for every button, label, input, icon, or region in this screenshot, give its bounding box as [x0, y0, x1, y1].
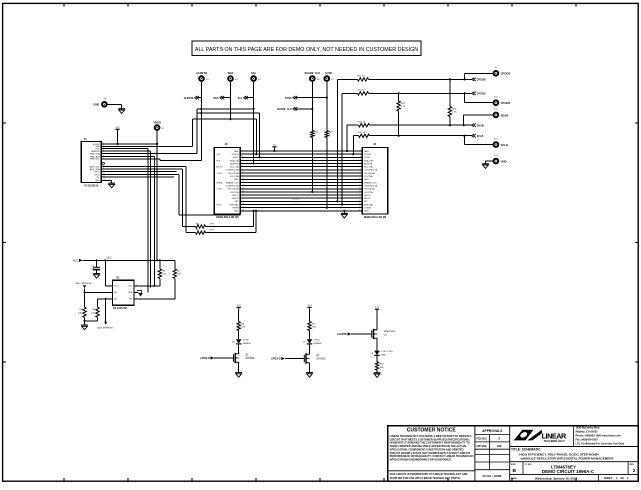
resistor R16: [359, 124, 370, 127]
wire pin10: [101, 171, 176, 173]
wire CPGD-D line: [342, 92, 357, 94]
wire bus 17 WP: [240, 200, 362, 202]
svg-text:OPT: OPT: [210, 223, 215, 225]
wire: [486, 160, 493, 162]
svg-text:VTRIM: VTRIM: [232, 207, 239, 209]
wire bus 13 PGOOD1A: [240, 188, 362, 190]
svg-text:APP ENG.: APP ENG.: [476, 445, 487, 448]
wire bus 9 VOUT0A: [240, 175, 362, 177]
wire bus 20 GND: [240, 210, 362, 212]
svg-text:8: 8: [360, 172, 361, 174]
svg-text:ONLY: ONLY: [293, 202, 299, 204]
svg-text:AUX_EEPROM: AUX_EEPROM: [97, 327, 112, 330]
svg-text:R12 10: R12 10: [358, 76, 366, 78]
svg-text:CONTROL1A: CONTROL1A: [364, 184, 378, 187]
net flag CPGDB: [472, 78, 476, 81]
LED D3: [374, 351, 380, 356]
svg-text:6: 6: [360, 165, 361, 167]
svg-text:WP: WP: [235, 201, 239, 203]
svg-text:IC NO.: IC NO.: [525, 464, 532, 466]
wire pin4 to EEPROM: [101, 150, 151, 152]
svg-text:9: 9: [242, 175, 243, 177]
svg-text:SDA: SDA: [228, 71, 234, 75]
resistor R15 pull: [398, 93, 400, 101]
svg-text:Milpitas, CA 95035: Milpitas, CA 95035: [576, 431, 598, 434]
resistor R2: [174, 260, 176, 269]
svg-text:VTRIM: VTRIM: [364, 207, 371, 209]
svg-text:VOUT0A: VOUT0A: [230, 175, 239, 178]
svg-text:ALERTB: ALERTB: [337, 333, 347, 336]
wire: [108, 103, 122, 105]
svg-text:5: 5: [242, 162, 243, 164]
svg-text:8: 8: [242, 172, 243, 174]
wire gate: [351, 333, 372, 335]
wire: [255, 119, 257, 154]
resistor R12: [358, 78, 369, 81]
svg-text:CONTROL0A: CONTROL0A: [226, 169, 240, 172]
svg-text:J2: J2: [225, 142, 228, 146]
wire: [376, 340, 378, 351]
ground: [93, 274, 100, 279]
svg-text:20: 20: [242, 209, 244, 211]
wire bus 2 VDD33: [240, 153, 362, 155]
svg-text:Phone: (408)432-1900 www.line: Phone: (408)432-1900 www.linear.com: [576, 435, 622, 438]
wire bus 18 SPECIAL: [240, 203, 362, 205]
svg-text:R13 10: R13 10: [358, 90, 366, 92]
svg-text:5: 5: [360, 162, 361, 164]
wire: [238, 331, 240, 340]
svg-text:12: 12: [242, 184, 244, 186]
svg-text:GPIO2: GPIO2: [232, 198, 239, 200]
svg-text:CPGD-D: CPGD-D: [271, 358, 281, 361]
svg-text:DATE:: DATE:: [511, 477, 518, 480]
svg-text:3: 3: [242, 156, 243, 158]
svg-text:GND: GND: [93, 103, 99, 107]
svg-text:SCL_OA: SCL_OA: [364, 166, 373, 169]
resistor R7 OPT: [186, 232, 195, 234]
svg-text:VOUT0A: VOUT0A: [364, 175, 373, 178]
svg-text:CTRL1: CTRL1: [216, 189, 222, 191]
svg-text:SYNC: SYNC: [325, 71, 332, 75]
ground: [306, 373, 313, 378]
wire pin11 to J2 bottom: [101, 174, 179, 176]
svg-text:GPIO2: GPIO2: [364, 198, 371, 200]
svg-text:SPECIAL: SPECIAL: [364, 203, 374, 206]
net flag SCL: [244, 96, 248, 99]
resistor R5: [97, 299, 99, 307]
svg-text:SYNC: SYNC: [364, 157, 370, 159]
resistor R9: [308, 322, 311, 331]
svg-text:13: 13: [359, 187, 361, 189]
wire: [309, 331, 311, 340]
svg-text:MMBT3906: MMBT3906: [384, 331, 396, 333]
turret E6 KGND: [101, 101, 108, 108]
svg-text:GPIO1: GPIO1: [232, 195, 239, 197]
LED D2: [307, 339, 313, 344]
svg-text:6: 6: [242, 165, 243, 167]
svg-text:OF: OF: [621, 477, 625, 480]
svg-text:SCLB: SCLB: [477, 135, 484, 138]
wire: [346, 125, 348, 151]
svg-text:CTRL0: CTRL0: [216, 173, 222, 175]
wire: [376, 355, 378, 362]
resistor R4: [84, 292, 86, 307]
svg-text:SYNC: SYNC: [233, 157, 239, 159]
wire bus 7 CONTROL0A: [240, 169, 362, 171]
node A cross-route: [197, 108, 254, 110]
svg-text:19: 19: [359, 206, 361, 208]
svg-text:18: 18: [242, 203, 244, 205]
ground: [108, 183, 115, 188]
svg-text:16: 16: [242, 197, 244, 199]
wire: [341, 93, 343, 204]
net flag CPGDD: [472, 92, 476, 95]
wire: [376, 370, 378, 373]
svg-text:J1: J1: [84, 137, 87, 141]
svg-text:CPG0: CPG0: [243, 340, 250, 342]
svg-text:VCC: VCC: [107, 258, 112, 260]
ground: [81, 325, 88, 330]
svg-text:GREEN: GREEN: [243, 343, 251, 345]
svg-text:TO DC1613A: TO DC1613A: [84, 185, 98, 188]
svg-text:VCC: VCC: [114, 286, 119, 288]
wire pin9 OPT loop: [101, 168, 182, 170]
svg-text:SHEET: SHEET: [604, 477, 613, 480]
svg-text:PMB_SCL: PMB_SCL: [90, 159, 101, 161]
svg-text:19: 19: [242, 206, 244, 208]
turret E12 SCLB: [493, 141, 500, 148]
svg-text:SHARE_CLK: SHARE_CLK: [277, 108, 292, 111]
svg-text:CUSTOMER NOTICE: CUSTOMER NOTICE: [407, 427, 456, 433]
svg-text:CPGDD: CPGDD: [501, 101, 511, 105]
svg-text:CONTROL1A: CONTROL1A: [226, 184, 240, 187]
svg-text:10K: 10K: [312, 327, 316, 329]
svg-text:2: 2: [360, 153, 361, 155]
svg-text:GND: GND: [501, 160, 507, 164]
net flag CPGD-D: [281, 357, 285, 360]
net flag SHARE_CLK: [293, 107, 297, 110]
svg-text:GREEN: GREEN: [314, 343, 322, 345]
pin key circle: [102, 162, 104, 164]
net flag ALERTB gate: [348, 332, 352, 335]
svg-text:17: 17: [359, 200, 361, 202]
svg-text:REV.: REV.: [630, 464, 635, 466]
wire bus 10 GND: [240, 178, 362, 180]
svg-text:12: 12: [359, 184, 361, 186]
svg-text:9: 9: [360, 175, 361, 177]
svg-text:THIS CIRCUIT IS PROPRIETARY TO: THIS CIRCUIT IS PROPRIETARY TO LINEAR TE…: [390, 472, 468, 476]
wire CPGD-B line: [337, 78, 357, 80]
svg-text:7: 7: [242, 169, 243, 171]
svg-text:GND: GND: [364, 151, 369, 153]
wire: [252, 211, 254, 227]
title block: [388, 426, 639, 482]
turret E8 SHARE_CLK: [309, 75, 316, 82]
svg-text:DEMO MALE BD (M): DEMO MALE BD (M): [216, 216, 239, 219]
power flag on bus: [274, 147, 276, 151]
wire bus 14 VOUT1A: [240, 191, 362, 193]
svg-text:PMB_SDA: PMB_SDA: [90, 152, 101, 155]
wire gate: [214, 357, 233, 359]
svg-text:14: 14: [359, 191, 361, 193]
svg-text:16: 16: [359, 197, 361, 199]
net flag SCLB: [472, 134, 476, 137]
LT logo: [514, 430, 542, 441]
svg-text:CPGDB: CPGDB: [501, 72, 511, 76]
net flag ALERTB: [195, 96, 199, 99]
turret E4 SDA: [227, 75, 234, 82]
svg-text:PGOOD0A: PGOOD0A: [228, 172, 239, 175]
svg-text:AUX_SDA: AUX_SDA: [90, 168, 100, 171]
demo-only notice banner: [192, 41, 421, 56]
svg-text:SDA_OA: SDA_OA: [230, 159, 239, 162]
wire: [376, 312, 378, 328]
svg-text:1: 1: [360, 150, 361, 152]
resistor R21: [325, 131, 328, 138]
resistor R20: [311, 131, 314, 138]
svg-text:10K: 10K: [91, 313, 95, 315]
net flag AUX_EEPROM2: [105, 299, 107, 322]
svg-text:CPGDD: CPGDD: [477, 93, 486, 96]
wire: [336, 79, 338, 201]
svg-text:R16 10: R16 10: [358, 121, 366, 123]
svg-text:18: 18: [359, 203, 361, 205]
wire: [238, 344, 240, 353]
wire bus 19 VTRIM: [240, 207, 362, 209]
wire source: [238, 364, 240, 373]
wire SHARE_CLK down: [311, 82, 313, 131]
wire: [259, 113, 261, 157]
svg-text:WP: WP: [364, 201, 368, 203]
svg-text:10: 10: [359, 178, 361, 180]
svg-text:VCC: VCC: [73, 260, 78, 263]
wire SCL down: [253, 82, 255, 165]
svg-text:VOUT1A: VOUT1A: [230, 191, 239, 194]
power flag 3V3: [117, 129, 119, 144]
svg-text:CPGD-B: CPGD-B: [200, 357, 210, 360]
wire: [238, 311, 240, 322]
tag on WP pin: [137, 291, 142, 295]
ground: [482, 164, 489, 169]
wire pin5 ALERTB net: [101, 152, 197, 154]
wire: [191, 119, 193, 146]
svg-text:2N7002L: 2N7002L: [316, 358, 326, 360]
svg-text:13: 13: [242, 187, 244, 189]
svg-text:SCL_OA: SCL_OA: [230, 166, 239, 169]
power flag Q2: [307, 305, 312, 310]
svg-text:VDD33: VDD33: [364, 154, 372, 156]
wire: [352, 136, 354, 155]
svg-text:SHARE_CLK: SHARE_CLK: [226, 181, 239, 184]
svg-text:DEMO MALE BD (M): DEMO MALE BD (M): [364, 216, 387, 219]
svg-text:7: 7: [360, 169, 361, 171]
svg-text:SDAB: SDAB: [501, 113, 509, 117]
wire: [196, 113, 198, 153]
svg-text:DC1996: DC1996: [292, 196, 301, 198]
svg-text:2: 2: [633, 468, 636, 474]
svg-text:10K: 10K: [241, 327, 245, 329]
connector J1: [81, 142, 101, 183]
svg-text:2: 2: [242, 153, 243, 155]
ground: [118, 109, 125, 114]
svg-text:SUPPLIED FOR USE WITH LINEAR T: SUPPLIED FOR USE WITH LINEAR TECHNOLOGY …: [390, 476, 461, 480]
wire: [196, 109, 198, 113]
wire SDAB line: [347, 124, 358, 126]
svg-text:10: 10: [242, 178, 244, 180]
svg-text:JWL: JWL: [497, 445, 503, 448]
svg-text:CPGDB: CPGDB: [477, 79, 486, 82]
wire pin2 SDA net: [101, 145, 192, 147]
capacitor C2: [96, 260, 98, 267]
LED D1: [236, 339, 242, 344]
net flag SDA: [220, 96, 224, 99]
wire SYNC down: [326, 82, 328, 131]
wire ALERTB down: [200, 82, 202, 161]
wire to turret E9: [464, 73, 466, 79]
svg-text:4: 4: [360, 159, 361, 161]
svg-text:AUX_SCL: AUX_SCL: [90, 165, 100, 168]
wire bus 16 GPIO2: [240, 197, 362, 199]
wire bus 4 SDA_OA: [240, 159, 362, 161]
wire: [255, 211, 257, 233]
svg-text:Wednesday, January 16, 2013: Wednesday, January 16, 2013: [535, 477, 577, 481]
svg-text:GND: GND: [234, 179, 239, 181]
svg-text:1: 1: [242, 150, 243, 152]
turret E10 CPGDD: [493, 99, 500, 106]
svg-text:Fax: (408)434-0507: Fax: (408)434-0507: [576, 439, 599, 442]
svg-text:SCALE = NONE: SCALE = NONE: [483, 474, 502, 478]
svg-text:DEMO CIRCUIT 1996A-C: DEMO CIRCUIT 1996A-C: [542, 469, 595, 474]
svg-text:GND: GND: [234, 151, 239, 153]
turret E11 SDAB: [493, 112, 500, 119]
wire bus 3 SYNC: [240, 156, 362, 158]
resistor R8: [237, 322, 240, 331]
wire pin13 GND: [101, 179, 112, 181]
wire gate: [285, 358, 304, 360]
svg-text:10K: 10K: [177, 274, 181, 276]
resistor R10: [375, 362, 378, 370]
resistor R6 OPT: [183, 226, 196, 228]
svg-text:SHARE_CLK: SHARE_CLK: [305, 71, 321, 75]
svg-text:SPECIAL: SPECIAL: [230, 203, 240, 206]
svg-text:SCLB: SCLB: [501, 143, 508, 147]
svg-text:10K: 10K: [380, 367, 384, 369]
wire pin7 SCL net: [101, 158, 160, 160]
wire VDD33 pin1: [101, 143, 157, 145]
svg-text:R17 10: R17 10: [358, 132, 366, 134]
svg-text:RED: RED: [381, 354, 386, 356]
svg-text:PGOOD1A: PGOOD1A: [364, 188, 375, 191]
node B cross-route: [197, 112, 260, 114]
svg-text:3: 3: [136, 298, 137, 300]
svg-text:LTST-C190: LTST-C190: [381, 351, 393, 353]
svg-text:ALERTB: ALERTB: [364, 162, 373, 165]
svg-text:SIZE: SIZE: [511, 464, 516, 466]
svg-text:OPT1: OPT1: [94, 172, 100, 174]
wire pin8 OPT loop: [101, 165, 186, 167]
svg-text:20: 20: [359, 209, 361, 211]
svg-text:TECHNOLOGY: TECHNOLOGY: [543, 439, 565, 443]
wire bus 11 SHARE_CLK: [240, 181, 362, 183]
net flag CPGD-B: [211, 356, 215, 359]
wire VDD33 drop: [156, 144, 158, 260]
svg-text:VDD33: VDD33: [232, 154, 240, 156]
wire bus 6 SCL_OA: [240, 166, 362, 168]
svg-text:ALERTB: ALERTB: [184, 97, 194, 100]
wire to turret E12: [463, 136, 465, 145]
net flag SDAB: [472, 124, 476, 127]
svg-text:4: 4: [242, 159, 243, 161]
svg-text:B: B: [513, 468, 517, 474]
svg-text:24LC025-I/ST: 24LC025-I/ST: [113, 307, 128, 310]
wire U2 SCL out: [134, 285, 154, 287]
svg-text:SPEC: SPEC: [216, 204, 222, 206]
svg-text:11: 11: [242, 181, 244, 183]
svg-text:SDAB: SDAB: [477, 125, 484, 128]
svg-text:GND: GND: [95, 180, 100, 182]
svg-text:ALERT: ALERT: [216, 166, 223, 169]
connector J3: [362, 148, 388, 215]
transistor Q2: [304, 353, 309, 364]
svg-text:SHARE_CLK: SHARE_CLK: [364, 181, 377, 184]
svg-text:NC: NC: [97, 177, 101, 179]
svg-text:CPG1: CPG1: [314, 340, 321, 342]
wire: [309, 344, 311, 353]
svg-text:SHARE: SHARE: [216, 181, 223, 184]
net flag SYNC: [293, 96, 297, 99]
wire to turret E10: [464, 93, 466, 102]
svg-text:ALL PARTS ON THIS PAGE ARE FOR: ALL PARTS ON THIS PAGE ARE FOR DEMO ONLY…: [195, 47, 418, 53]
svg-text:ALERTB: ALERTB: [230, 162, 239, 165]
svg-text:AUX_EEPROM: AUX_EEPROM: [76, 282, 91, 285]
wire U2 A1: [98, 298, 113, 300]
svg-text:SDA: SDA: [214, 97, 219, 100]
wire VCC rail: [83, 259, 175, 261]
ground: [374, 373, 381, 378]
turret E3 ALERTB: [198, 75, 205, 82]
svg-text:SCL: SCL: [251, 71, 257, 75]
svg-text:10K: 10K: [78, 313, 82, 315]
svg-text:17: 17: [242, 200, 244, 202]
wire bus 15 GPIO1: [240, 194, 362, 196]
svg-text:LTC Confidential-For Customer: LTC Confidential-For Customer Use Only: [576, 443, 625, 446]
svg-text:CONTROL0A: CONTROL0A: [364, 169, 378, 172]
wire pin6 to EEPROM: [101, 156, 154, 158]
svg-text:4.7K: 4.7K: [452, 111, 457, 113]
svg-text:TITLE: SCHEMATIC: TITLE: SCHEMATIC: [511, 447, 541, 451]
wire pin12: [101, 176, 174, 178]
svg-text:SDA_OA: SDA_OA: [364, 159, 373, 162]
wire pin3 to EEPROM: [101, 148, 148, 150]
power flag Q3: [375, 307, 380, 312]
resistor R3: [159, 260, 161, 269]
svg-text:SCL: SCL: [238, 97, 243, 100]
svg-text:15: 15: [359, 194, 361, 196]
wire bus 8 PGOOD0A: [240, 172, 362, 174]
svg-text:15: 15: [242, 194, 244, 196]
wire: [326, 138, 328, 208]
transistor Q3: [372, 328, 377, 339]
svg-text:14: 14: [242, 191, 244, 193]
svg-text:GND: GND: [364, 211, 369, 213]
ground: [235, 373, 242, 378]
svg-text:3: 3: [360, 156, 361, 158]
power flag Q1: [237, 305, 242, 310]
svg-text:APPLICATIONS ENGINEERING FOR A: APPLICATIONS ENGINEERING FOR ASSISTANCE.: [390, 457, 452, 461]
wire source: [309, 364, 311, 373]
turret E2 VDD33: [156, 130, 158, 144]
svg-text:ALERTB: ALERTB: [196, 71, 207, 75]
